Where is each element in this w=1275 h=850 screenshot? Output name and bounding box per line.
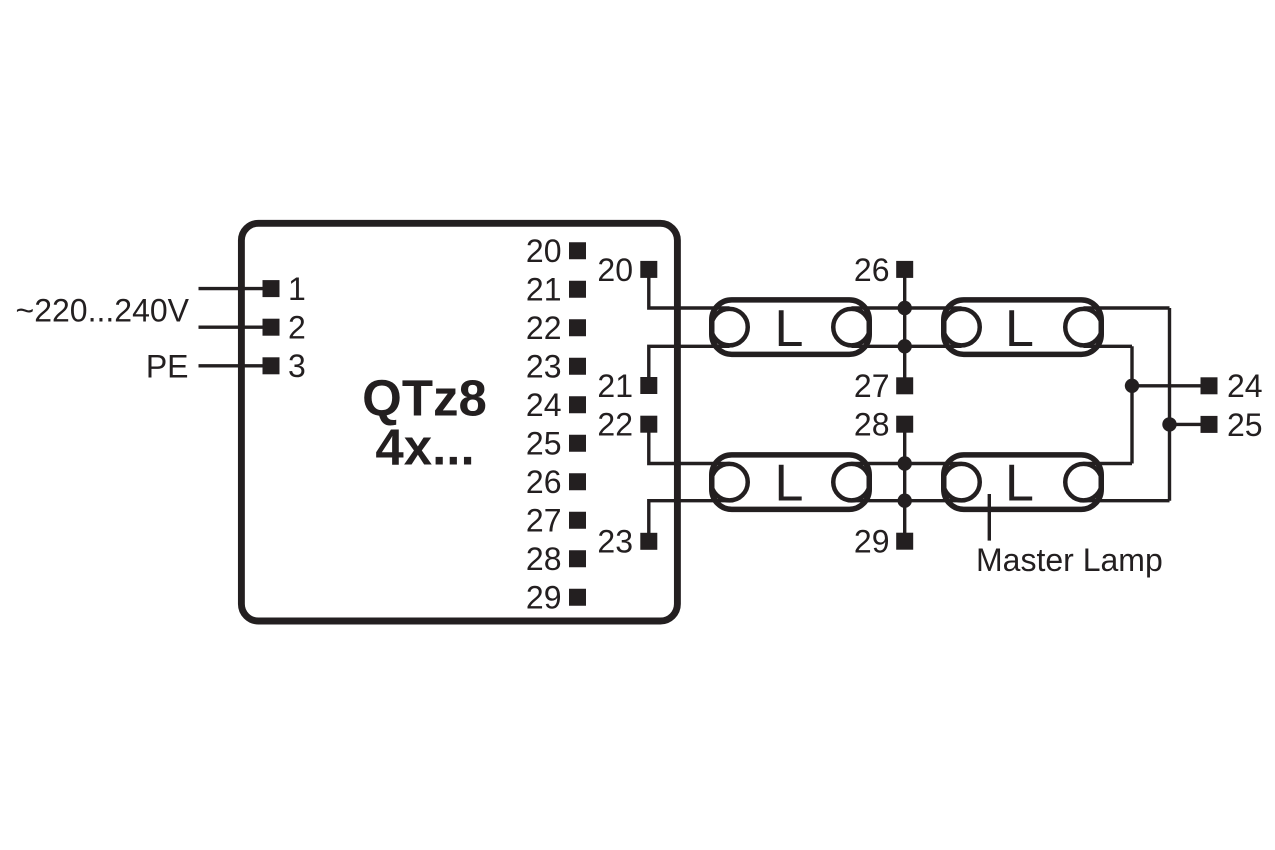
wire node A to terminal 24 [1132,384,1201,387]
wire terminal 23 to lamp L3 pin 2 [649,501,730,538]
lamp L1 right cathode [833,309,870,346]
lamp L1 left cathode [711,309,748,346]
terminal 26 square [896,261,913,278]
terminal 3 square [263,357,280,374]
svg-text:21: 21 [526,272,562,308]
wire terminal 28 to terminal 29 link [903,427,906,538]
svg-text:26: 26 [526,464,562,500]
terminal 29 square [896,533,913,550]
wire lamp L3 pin 3 to lamp L4 pin 1 [852,462,962,465]
svg-text:28: 28 [854,407,890,443]
terminal 26 square (internal list) [569,473,586,490]
label QTz8 4x... [362,370,487,476]
terminal 29 square (internal list) [569,589,586,606]
wire lamp L1 pin 4 to lamp L2 pin 2 [852,345,962,348]
lamp L4 left cathode [943,464,980,501]
wire outer bracket vertical [1168,308,1171,501]
svg-text:24: 24 [1227,368,1263,404]
terminal 24 square (internal list) [569,396,586,413]
svg-text:28: 28 [526,541,562,577]
lamp L3 left cathode [711,464,748,501]
svg-text:25: 25 [1227,407,1263,443]
junction dot lamp L1-L2 top [898,301,912,315]
wire lamp L4 pin 3 to inner bracket [1084,462,1133,465]
lamp L3 tube [712,455,870,510]
wire mains N to terminal 2 [199,326,267,329]
wire terminal 22 to lamp L3 pin 1 [649,427,730,464]
terminal 20 square (outside) [640,261,657,278]
svg-text:27: 27 [854,368,890,404]
ballast box U1 QTz8 [241,223,677,621]
svg-text:26: 26 [854,252,890,288]
svg-text:~220...240V: ~220...240V [16,293,190,329]
lamp L2 right cathode [1065,309,1102,346]
svg-text:Master Lamp: Master Lamp [976,542,1163,578]
svg-text:L: L [1005,455,1034,513]
svg-text:L: L [775,300,804,358]
svg-text:4x...: 4x... [375,419,474,476]
lamp L2 tube [944,300,1102,355]
svg-text:1: 1 [288,271,306,307]
wire terminal 21 to lamp L1 pin 2 [649,346,730,383]
wire lamp L2 pin 4 to inner bracket [1084,345,1133,348]
junction dot lamp L3-L4 bottom [898,494,912,508]
svg-text:22: 22 [526,310,562,346]
terminal 28 square [896,416,913,433]
svg-text:29: 29 [526,580,562,616]
svg-text:23: 23 [526,349,562,385]
svg-text:23: 23 [597,524,633,560]
terminal 27 square [896,377,913,394]
terminal 24 square [1201,377,1218,394]
lamp L4 right cathode [1065,464,1102,501]
wire lamp L4 pin 4 to outer bracket [1084,499,1170,502]
terminal 2 square [263,319,280,336]
wire terminal 26 to terminal 27 link [903,272,906,383]
terminal 27 square (internal list) [569,512,586,529]
svg-text:3: 3 [288,348,306,384]
terminal 20 square (internal list) [569,242,586,259]
svg-text:25: 25 [526,426,562,462]
svg-text:20: 20 [526,233,562,269]
terminal 23 square (outside) [640,533,657,550]
lamp L2 left cathode [943,309,980,346]
wire inner bracket vertical [1130,346,1133,463]
svg-text:24: 24 [526,387,562,423]
master lamp pointer line [988,494,991,541]
svg-text:L: L [1005,300,1034,358]
svg-text:21: 21 [597,368,633,404]
terminal 25 square [1201,416,1218,433]
terminal 21 square (outside) [640,377,657,394]
wire lamp L1 pin 3 to lamp L2 pin 1 [852,306,962,309]
wire node B to terminal 25 [1170,423,1201,426]
junction dot lamp L1-L2 bottom [898,339,912,353]
wire lamp L2 pin 3 to outer bracket [1084,306,1170,309]
svg-text:2: 2 [288,310,306,346]
terminal 28 square (internal list) [569,550,586,567]
svg-text:29: 29 [854,524,890,560]
wire terminal 20 to lamp L1 pin 1 [649,272,730,308]
terminal 1 square [263,280,280,297]
svg-text:PE: PE [146,348,189,384]
svg-text:L: L [775,455,804,513]
wire PE to terminal 3 [199,364,267,367]
junction dot lamp L3-L4 top [898,456,912,470]
terminal 23 square (internal list) [569,358,586,375]
wire mains L to terminal 1 [199,287,267,290]
svg-text:22: 22 [597,407,633,443]
junction dot node A (terminal 24) [1125,379,1139,393]
terminal 21 square (internal list) [569,281,586,298]
lamp L4 tube [944,455,1102,510]
lamp L3 right cathode [833,464,870,501]
junction dot node B (terminal 25) [1162,417,1176,431]
terminal 25 square (internal list) [569,435,586,452]
svg-text:20: 20 [597,252,633,288]
svg-text:27: 27 [526,503,562,539]
terminal 22 square (internal list) [569,319,586,336]
terminal 22 square (outside) [640,416,657,433]
wire lamp L3 pin 4 to lamp L4 pin 2 [852,499,962,502]
lamp L1 tube [712,300,870,355]
